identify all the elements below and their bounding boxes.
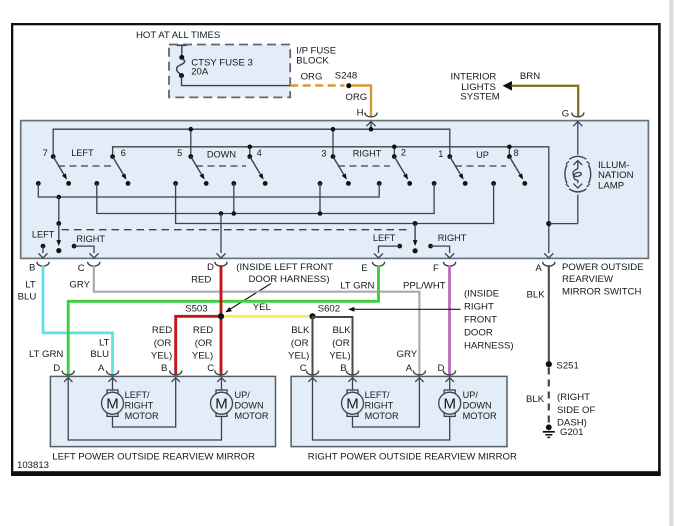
svg-text:BLK: BLK <box>526 394 545 405</box>
svg-text:RIGHT: RIGHT <box>464 302 494 313</box>
svg-text:UP/: UP/ <box>235 390 251 400</box>
wire LT GRN (pin E to left mirror D) <box>68 265 378 375</box>
wire bus C (contacts 5L-8L, right selector) <box>176 183 494 225</box>
label S251 <box>556 360 578 371</box>
mirror switch box <box>21 121 649 259</box>
label BLK (OR YEL) col C <box>288 325 310 361</box>
svg-text:(RIGHT: (RIGHT <box>557 392 590 403</box>
svg-text:BLU: BLU <box>18 291 37 302</box>
wire bus lower (switches 6-4-2-8, to pin A) <box>113 145 549 224</box>
label CTSY FUSE 3 20A <box>191 58 253 78</box>
svg-text:H: H <box>357 108 364 119</box>
label BRN <box>520 71 540 82</box>
svg-text:D: D <box>207 262 214 273</box>
label POWER OUTSIDE REARVIEW MIRROR SWITCH <box>562 262 644 297</box>
label S248 <box>335 71 357 82</box>
svg-text:NATION: NATION <box>598 170 634 181</box>
label 103813 <box>17 460 49 471</box>
label pin A (switch) <box>535 263 542 274</box>
wire BLK to right mirror B <box>313 317 353 376</box>
connector left-mirror B <box>170 371 182 375</box>
svg-text:S602: S602 <box>318 304 340 315</box>
svg-text:4: 4 <box>257 148 262 158</box>
label UP <box>476 150 489 160</box>
label 5 <box>177 148 182 158</box>
switch blade 1 <box>447 154 467 186</box>
contact dots row <box>36 181 496 186</box>
left mirror wiring <box>64 378 226 440</box>
svg-text:S503: S503 <box>185 304 207 315</box>
svg-text:7: 7 <box>43 148 48 158</box>
pin H entry arrow <box>366 122 375 130</box>
splice S602 <box>309 313 315 319</box>
label LEFT/RIGHT MOTOR (left) <box>125 390 159 421</box>
label mirror pin C <box>207 363 214 374</box>
label LEFT (selector right) <box>373 233 396 243</box>
svg-text:1: 1 <box>438 149 443 159</box>
svg-text:LT: LT <box>99 338 110 349</box>
wire ORG from S248 to connector H <box>351 86 371 117</box>
svg-text:RIGHT POWER OUTSIDE REARVIEW M: RIGHT POWER OUTSIDE REARVIEW MIRROR <box>308 452 517 463</box>
connector G <box>572 113 584 117</box>
wire bus B (contacts 6L-4L-3L-1L, pin D) <box>97 183 434 215</box>
label pin E <box>361 263 367 274</box>
label G201 <box>560 427 583 438</box>
label ILLUMINATION LAMP <box>598 160 634 192</box>
svg-text:MOTOR: MOTOR <box>235 411 269 421</box>
left mirror box <box>50 376 275 446</box>
wire RED to left mirror C <box>220 316 223 375</box>
label RED (OR YEL) col B <box>151 325 172 361</box>
svg-text:M: M <box>215 396 228 413</box>
connector right-mirror D <box>443 371 455 375</box>
label RED (upper) <box>191 275 211 286</box>
svg-text:A: A <box>406 363 413 374</box>
label LT BLU (lower) <box>90 338 109 361</box>
arrow to interior lights system <box>503 81 512 91</box>
label 4 <box>257 148 262 158</box>
svg-text:BLK: BLK <box>332 325 351 336</box>
connector B <box>37 262 49 266</box>
wire bus upper (switches 7-5-3-1, node H) <box>53 127 450 157</box>
svg-text:LT GRN: LT GRN <box>29 349 63 360</box>
svg-text:RIGHT: RIGHT <box>76 234 105 244</box>
label right-mirror pin A <box>406 363 413 374</box>
arrow to S602 <box>348 307 461 312</box>
label S602 <box>318 304 340 315</box>
svg-text:PPL/WHT: PPL/WHT <box>403 281 446 292</box>
switch blade 4 <box>247 154 267 186</box>
label mirror pin A <box>98 363 105 374</box>
svg-text:RED: RED <box>191 275 211 286</box>
svg-text:BLU: BLU <box>90 349 109 360</box>
svg-text:(OR: (OR <box>332 338 350 349</box>
svg-text:LAMP: LAMP <box>598 181 624 192</box>
right mirror box <box>291 376 507 446</box>
label RIGHT (pair) <box>353 149 382 159</box>
selector linkage dashed <box>62 229 412 231</box>
caption LEFT POWER OUTSIDE REARVIEW MIRROR <box>52 452 255 463</box>
label pin F <box>433 263 439 274</box>
motor M2 up/down (left mirror) <box>211 390 233 416</box>
label pin G <box>562 108 569 119</box>
label right-mirror pin C <box>300 363 307 374</box>
label pin D (switch) <box>207 262 214 273</box>
svg-text:5: 5 <box>177 148 182 158</box>
switch blade 2 <box>392 154 412 186</box>
motor M1 left/right (right mirror) <box>342 390 364 416</box>
svg-text:LEFT: LEFT <box>373 233 396 243</box>
I/P fuse block box <box>169 45 290 98</box>
svg-text:M: M <box>106 396 119 413</box>
linkage switches 3-2 <box>338 165 390 167</box>
label DOWN <box>207 149 236 159</box>
wire PPL/WHT (pin F to right mirror D) <box>448 265 451 375</box>
motor M1 left/right (left mirror) <box>102 390 124 416</box>
svg-text:C: C <box>300 363 307 374</box>
svg-text:103813: 103813 <box>17 460 49 471</box>
svg-text:S251: S251 <box>556 360 578 371</box>
label S503 <box>185 304 207 315</box>
label (INSIDE RIGHT FRONT DOOR HARNESS) <box>464 289 514 352</box>
selector switch right-mirror <box>374 221 454 258</box>
label (RIGHT SIDE OF DASH) <box>557 392 596 428</box>
svg-text:LEFT: LEFT <box>32 229 55 239</box>
wire RED to left mirror B <box>176 316 221 375</box>
caption RIGHT POWER OUTSIDE REARVIEW MIRROR <box>308 452 517 463</box>
label RED (OR YEL) col C <box>192 325 213 361</box>
splice S251 <box>546 361 552 367</box>
svg-text:BRN: BRN <box>520 71 540 82</box>
svg-text:RIGHT: RIGHT <box>365 400 394 410</box>
svg-text:BLOCK: BLOCK <box>296 56 329 67</box>
label 1 <box>438 149 443 159</box>
label LEFT (up/down pair) <box>71 148 94 158</box>
label UP/DOWN MOTOR (left) <box>235 390 269 421</box>
label 7 <box>43 148 48 158</box>
svg-text:B: B <box>29 263 35 274</box>
svg-text:M: M <box>346 396 359 413</box>
wire GRY (pin C to right mirror A) <box>94 265 420 375</box>
svg-text:DOWN: DOWN <box>207 149 236 159</box>
svg-text:(OR: (OR <box>154 338 172 349</box>
switch blade 3 <box>331 154 351 186</box>
switch blade 8 <box>507 154 527 186</box>
label (INSIDE LEFT FRONT DOOR HARNESS) <box>236 262 333 285</box>
connector right-mirror A <box>413 371 425 375</box>
svg-text:ILLUM-: ILLUM- <box>598 160 629 171</box>
connector right-mirror C <box>306 371 318 375</box>
wire LT BLU (pin B to left mirror A) <box>43 265 113 375</box>
svg-text:RIGHT: RIGHT <box>125 400 154 410</box>
svg-text:SIDE OF: SIDE OF <box>557 405 596 416</box>
svg-text:YEL: YEL <box>253 302 272 313</box>
pin A exit <box>544 221 553 258</box>
svg-text:DOWN: DOWN <box>463 400 492 410</box>
svg-text:G201: G201 <box>560 427 583 438</box>
pin D exit <box>216 214 225 258</box>
svg-text:LT: LT <box>25 279 36 290</box>
svg-text:D: D <box>53 363 60 374</box>
wire BLK (pin A to S251) <box>548 265 550 363</box>
svg-text:E: E <box>361 263 367 274</box>
svg-text:8: 8 <box>514 148 519 158</box>
connector A <box>543 262 555 266</box>
svg-text:M: M <box>443 396 456 413</box>
fuse CTSY FUSE 3 20A <box>177 45 291 85</box>
svg-text:LEFT: LEFT <box>71 148 94 158</box>
label LEFT/RIGHT MOTOR (right) <box>365 390 399 421</box>
label BLK (upper) <box>527 290 546 301</box>
wire BLK dashed (S251 to G201) <box>548 368 550 425</box>
switch blade 6 <box>110 154 130 186</box>
connector left-mirror C <box>215 371 227 375</box>
switch blade 7 <box>51 154 71 186</box>
svg-text:HOT AT ALL TIMES: HOT AT ALL TIMES <box>136 30 220 41</box>
connector H <box>365 113 377 117</box>
svg-text:G: G <box>562 108 569 119</box>
svg-text:MIRROR SWITCH: MIRROR SWITCH <box>562 286 641 297</box>
svg-text:A: A <box>535 263 542 274</box>
wire BRN from interior lights to connector G <box>512 86 579 117</box>
svg-text:HARNESS): HARNESS) <box>464 341 514 352</box>
right mirror wiring <box>308 378 454 440</box>
label LT GRN (upper) <box>340 281 374 292</box>
svg-text:RIGHT: RIGHT <box>353 149 382 159</box>
svg-text:MOTOR: MOTOR <box>463 411 497 421</box>
label GRY (upper) <box>69 279 90 290</box>
label LT GRN (lower) <box>29 349 63 360</box>
label BLK (OR YEL) col B <box>329 325 351 361</box>
svg-text:20A: 20A <box>191 67 209 78</box>
svg-text:3: 3 <box>321 149 326 159</box>
label LT BLU (upper) <box>18 279 37 302</box>
label RIGHT (selector left) <box>76 234 105 244</box>
svg-text:DOWN: DOWN <box>235 400 264 410</box>
label I/P FUSE BLOCK <box>296 45 336 66</box>
svg-text:YEL): YEL) <box>151 351 172 362</box>
switch blade 5 <box>188 154 208 186</box>
svg-text:(OR: (OR <box>195 338 213 349</box>
label LEFT (selector left) <box>32 229 55 239</box>
svg-text:(INSIDE: (INSIDE <box>464 289 499 300</box>
label HOT AT ALL TIMES <box>136 30 220 41</box>
svg-text:RIGHT: RIGHT <box>438 233 467 243</box>
svg-text:S248: S248 <box>335 71 357 82</box>
label BLK (lower) <box>526 394 545 405</box>
arrow to S503 <box>225 284 271 313</box>
connector right-mirror B <box>346 371 358 375</box>
label ORG (to H) <box>345 92 367 103</box>
splice S248 <box>346 83 351 88</box>
svg-text:B: B <box>340 363 346 374</box>
svg-text:A: A <box>98 363 105 374</box>
label PPL/WHT <box>403 281 446 292</box>
wire bus A (contacts 7L-2L, left selector) <box>38 183 379 199</box>
svg-text:(INSIDE LEFT FRONT: (INSIDE LEFT FRONT <box>236 262 333 273</box>
svg-text:LT GRN: LT GRN <box>340 281 374 292</box>
svg-text:SYSTEM: SYSTEM <box>460 92 499 103</box>
label pin C <box>78 263 85 274</box>
connector left-mirror A <box>106 371 118 375</box>
label 8 <box>514 148 519 158</box>
label YEL <box>253 302 272 313</box>
svg-text:LEFT POWER OUTSIDE REARVIEW MI: LEFT POWER OUTSIDE REARVIEW MIRROR <box>52 452 255 463</box>
ground G201 <box>543 424 555 437</box>
svg-text:BLK: BLK <box>291 325 310 336</box>
connector F <box>443 262 455 266</box>
label pin B <box>29 263 35 274</box>
svg-text:FRONT: FRONT <box>464 315 497 326</box>
wire BLK to right mirror C <box>312 316 314 375</box>
label mirror pin D <box>53 363 60 374</box>
label UP/DOWN MOTOR (right) <box>463 390 497 421</box>
svg-text:RED: RED <box>152 325 172 336</box>
svg-text:2: 2 <box>401 148 406 158</box>
label RIGHT (selector right) <box>438 233 467 243</box>
svg-text:UP: UP <box>476 150 489 160</box>
connector left-mirror D <box>62 371 74 375</box>
svg-text:GRY: GRY <box>397 349 418 360</box>
splice S503 <box>218 313 224 319</box>
label right-mirror pin D <box>438 363 445 374</box>
label 3 <box>321 149 326 159</box>
svg-text:C: C <box>207 363 214 374</box>
svg-text:REARVIEW: REARVIEW <box>562 274 614 285</box>
label mirror pin B <box>161 363 167 374</box>
label ORG (fuse output) <box>301 71 323 82</box>
label pin H <box>357 108 364 119</box>
svg-text:LEFT/: LEFT/ <box>365 390 390 400</box>
connector C <box>88 262 100 266</box>
label 2 <box>401 148 406 158</box>
wire ORG dashed from fuse block to S248 <box>290 84 344 86</box>
svg-text:LEFT/: LEFT/ <box>125 390 150 400</box>
svg-text:BLK: BLK <box>527 290 546 301</box>
svg-text:YEL): YEL) <box>329 351 350 362</box>
svg-text:C: C <box>78 263 85 274</box>
connector E <box>372 262 384 266</box>
svg-text:F: F <box>433 263 439 274</box>
linkage switches 5-4 <box>196 165 246 167</box>
svg-text:YEL): YEL) <box>288 351 309 362</box>
svg-text:ORG: ORG <box>345 92 367 103</box>
motor M2 up/down (right mirror) <box>439 390 461 416</box>
svg-text:(OR: (OR <box>291 338 309 349</box>
linkage switches 7-6 <box>58 165 111 167</box>
svg-text:6: 6 <box>121 148 126 158</box>
label GRY (lower) <box>397 349 418 360</box>
svg-text:B: B <box>161 363 167 374</box>
wire YEL (S503 to S602) <box>221 315 313 318</box>
label 6 <box>121 148 126 158</box>
svg-text:YEL): YEL) <box>192 351 213 362</box>
wire RED (pin D to S503) <box>220 265 223 316</box>
connector D <box>215 262 227 266</box>
svg-text:DOOR: DOOR <box>464 328 493 339</box>
svg-text:DOOR HARNESS): DOOR HARNESS) <box>249 274 330 285</box>
label right-mirror pin B <box>340 363 346 374</box>
linkage switches 1-8 <box>455 165 506 167</box>
selector switch left-mirror <box>38 197 98 258</box>
svg-text:GRY: GRY <box>69 279 90 290</box>
svg-text:POWER OUTSIDE: POWER OUTSIDE <box>562 262 644 273</box>
svg-text:ORG: ORG <box>301 71 323 82</box>
svg-text:RED: RED <box>193 325 213 336</box>
svg-text:UP/: UP/ <box>463 390 479 400</box>
svg-text:MOTOR: MOTOR <box>125 411 159 421</box>
svg-text:MOTOR: MOTOR <box>365 411 399 421</box>
illumination lamp <box>549 122 591 224</box>
label INTERIOR LIGHTS SYSTEM <box>451 72 500 103</box>
